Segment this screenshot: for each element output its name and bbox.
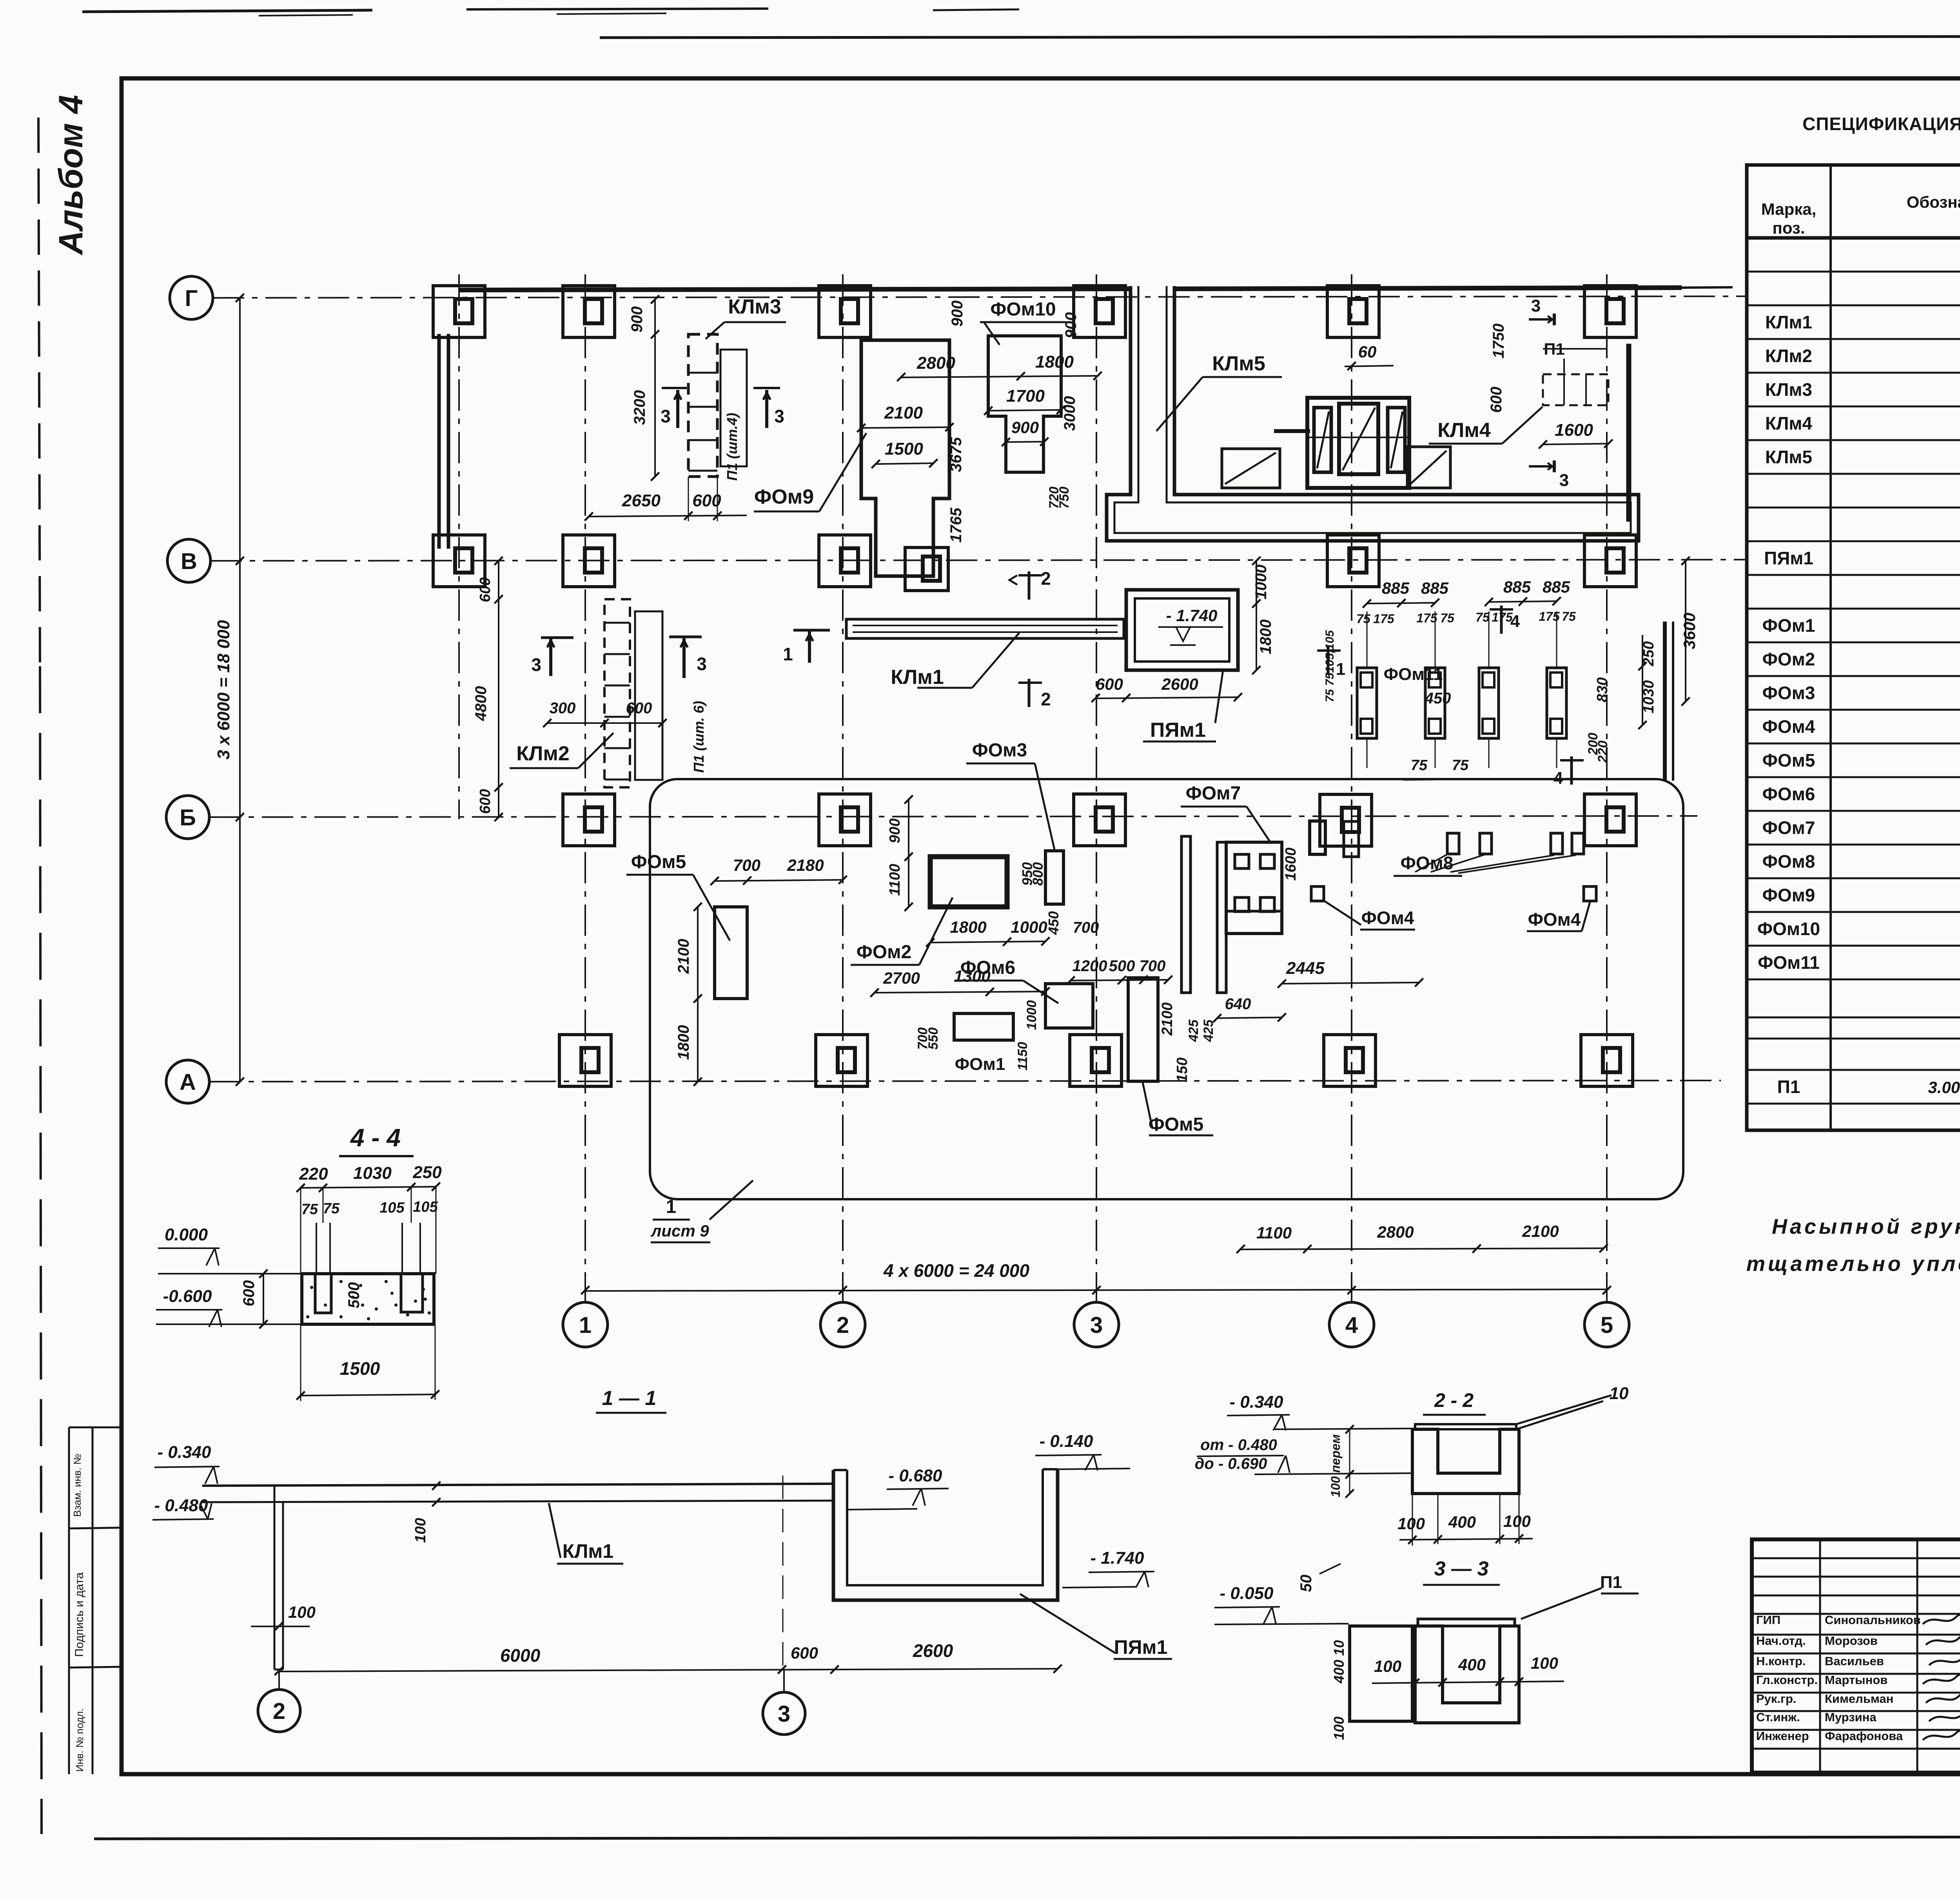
svg-text:75: 75 — [301, 1201, 318, 1218]
svg-text:885: 885 — [1382, 579, 1410, 597]
svg-text:600: 600 — [477, 577, 494, 602]
svg-text:- 0.340: - 0.340 — [158, 1443, 212, 1462]
sheet top torn edge — [82, 10, 372, 12]
svg-text:600: 600 — [791, 1644, 818, 1662]
svg-text:КЛм4: КЛм4 — [1765, 413, 1812, 433]
axis circle А — [166, 1060, 209, 1103]
svg-text:Инв. № подл.: Инв. № подл. — [74, 1708, 85, 1772]
svg-text:1600: 1600 — [1283, 848, 1299, 881]
svg-text:ФОм4: ФОм4 — [1762, 716, 1815, 737]
section 4-4 block — [302, 1274, 434, 1324]
svg-text:1000: 1000 — [1024, 1000, 1039, 1030]
axis circle 4 — [1329, 1302, 1374, 1347]
svg-text:КЛм2: КЛм2 — [1765, 346, 1812, 366]
svg-text:КЛм4: КЛм4 — [1437, 419, 1491, 442]
svg-text:КЛм5: КЛм5 — [1765, 447, 1812, 467]
sheet left edge broken line — [38, 118, 40, 666]
foundation FOm9 — [861, 340, 949, 576]
svg-text:ФОм7: ФОм7 — [1762, 818, 1815, 838]
svg-text:ФОм5: ФОм5 — [1149, 1114, 1204, 1135]
channel KLm2 — [604, 599, 630, 787]
svg-text:425: 425 — [1201, 1019, 1216, 1042]
svg-text:тщательно уплотнить.: тщательно уплотнить. — [1746, 1252, 1960, 1276]
svg-text:ФОм10: ФОм10 — [1757, 919, 1820, 939]
svg-text:2100: 2100 — [884, 403, 923, 422]
svg-text:Мартынов: Мартынов — [1825, 1673, 1887, 1687]
axis column lines — [584, 274, 586, 1302]
svg-text:КЛм2: КЛм2 — [516, 742, 570, 765]
svg-text:1700: 1700 — [1006, 386, 1045, 406]
svg-text:КЛм3: КЛм3 — [1765, 379, 1812, 400]
svg-text:ФОм5: ФОм5 — [1762, 750, 1815, 770]
foundation FOm1 — [954, 1013, 1013, 1040]
svg-text:ФОм10: ФОм10 — [990, 299, 1056, 320]
pit PYam1 — [1126, 590, 1238, 670]
svg-text:ФОм6: ФОм6 — [1762, 784, 1815, 804]
svg-text:1150: 1150 — [1015, 1042, 1030, 1070]
left overall dim line — [239, 298, 241, 1082]
svg-text:175: 175 — [1373, 612, 1395, 626]
svg-text:3200: 3200 — [631, 390, 648, 425]
right wall upper — [1626, 344, 1632, 522]
svg-text:ПЯм1: ПЯм1 — [1150, 719, 1206, 741]
svg-text:75: 75 — [1452, 757, 1469, 774]
svg-text:220: 220 — [299, 1164, 328, 1184]
bottom subdim line — [1241, 1248, 1604, 1249]
foundation FOm5 lower — [1128, 978, 1158, 1081]
svg-text:2: 2 — [273, 1699, 285, 1724]
foundation FOm2 — [930, 857, 1007, 907]
svg-text:105: 105 — [413, 1199, 438, 1215]
svg-text:Кимельман: Кимельман — [1825, 1692, 1893, 1706]
svg-text:885: 885 — [1421, 579, 1449, 597]
section 4-4 concrete dots — [310, 1286, 313, 1289]
svg-text:- 1.740: - 1.740 — [1091, 1548, 1145, 1568]
svg-text:100: 100 — [1331, 1717, 1347, 1740]
axis circle Г — [170, 276, 213, 319]
svg-text:ФОм9: ФОм9 — [754, 486, 814, 508]
machine side right — [1407, 447, 1450, 488]
svg-text:75: 75 — [1475, 610, 1490, 624]
section 1-1 pit — [833, 1469, 1058, 1600]
svg-text:600: 600 — [477, 789, 494, 814]
section 1-1 circle 3 — [763, 1692, 805, 1735]
column squares row А — [559, 1035, 611, 1086]
svg-text:ФОм9: ФОм9 — [1762, 885, 1815, 905]
svg-text:2600: 2600 — [913, 1641, 953, 1661]
svg-text:В: В — [181, 549, 197, 574]
svg-text:1800: 1800 — [1035, 352, 1074, 372]
svg-text:900: 900 — [1062, 312, 1080, 339]
svg-text:Нач.отд.: Нач.отд. — [1756, 1634, 1806, 1648]
section mark 3 left a — [662, 387, 687, 389]
svg-text:2100: 2100 — [675, 939, 692, 974]
svg-text:1800: 1800 — [1257, 620, 1274, 654]
svg-text:ФОм2: ФОм2 — [857, 942, 912, 963]
svg-text:3: 3 — [778, 1701, 790, 1727]
channel KLm3 — [688, 334, 717, 477]
svg-text:Синопальников: Синопальников — [1825, 1613, 1921, 1627]
svg-text:КЛм3: КЛм3 — [728, 295, 781, 318]
svg-text:100: 100 — [1397, 1514, 1425, 1533]
section mark 3 mid a — [541, 636, 573, 639]
svg-text:1000: 1000 — [1011, 918, 1047, 936]
svg-text:ФОм8: ФОм8 — [1762, 851, 1815, 872]
svg-text:2600: 2600 — [1161, 675, 1198, 693]
svg-text:ФОм4: ФОм4 — [1528, 909, 1581, 930]
svg-text:400: 400 — [1448, 1513, 1476, 1531]
svg-text:600: 600 — [1488, 387, 1505, 413]
svg-text:Рук.гр.: Рук.гр. — [1756, 1692, 1797, 1706]
svg-text:1765: 1765 — [947, 508, 965, 543]
right wall lower — [1663, 622, 1667, 781]
axis circle 5 — [1584, 1302, 1629, 1347]
svg-text:3: 3 — [774, 406, 784, 426]
svg-text:1000: 1000 — [1252, 565, 1270, 600]
left strip columns — [68, 1427, 70, 1774]
svg-text:- 0.140: - 0.140 — [1040, 1432, 1094, 1451]
section 2-2 block — [1412, 1429, 1519, 1494]
svg-text:ФОм11: ФОм11 — [1758, 952, 1820, 973]
svg-text:75 75105,105: 75 75105,105 — [1323, 630, 1336, 702]
signatures — [1923, 1614, 1960, 1624]
svg-text:2: 2 — [1041, 689, 1051, 709]
svg-text:1800: 1800 — [950, 918, 986, 936]
svg-text:от - 0.480: от - 0.480 — [1200, 1436, 1277, 1454]
axis circle В — [167, 539, 211, 582]
svg-text:2700: 2700 — [883, 969, 920, 987]
svg-text:1500: 1500 — [340, 1358, 380, 1379]
svg-text:2800: 2800 — [1377, 1223, 1414, 1241]
column square row V extra — [905, 547, 948, 591]
svg-text:ФОм4: ФОм4 — [1361, 908, 1414, 928]
svg-text:640: 640 — [1225, 995, 1251, 1013]
svg-text:1030: 1030 — [353, 1164, 392, 1183]
svg-text:2: 2 — [837, 1312, 849, 1338]
svg-text:КЛм1: КЛм1 — [1765, 312, 1812, 332]
svg-text:3000: 3000 — [1061, 396, 1078, 431]
svg-text:1100: 1100 — [1256, 1224, 1292, 1242]
section 3-3 left block — [1350, 1626, 1412, 1721]
svg-text:- 0.340: - 0.340 — [1230, 1392, 1284, 1412]
svg-text:лист 9: лист 9 — [650, 1222, 709, 1240]
svg-text:1500: 1500 — [885, 439, 923, 459]
svg-text:-0.600: -0.600 — [163, 1287, 212, 1306]
svg-text:Подпись и дата: Подпись и дата — [73, 1572, 86, 1657]
svg-text:П1: П1 — [1777, 1077, 1800, 1097]
svg-text:2180: 2180 — [787, 856, 824, 874]
svg-text:ФОм3: ФОм3 — [972, 740, 1027, 761]
svg-text:3: 3 — [1559, 471, 1569, 490]
axis circle 3 — [1074, 1302, 1119, 1347]
top wall — [459, 289, 1129, 290]
svg-text:60: 60 — [1358, 343, 1377, 361]
svg-text:Фарафонова: Фарафонова — [1825, 1729, 1903, 1743]
machine block — [1307, 398, 1409, 488]
svg-text:А: А — [180, 1070, 196, 1095]
section 3-3 plate — [1418, 1619, 1515, 1626]
svg-text:4 х 6000 = 24 000: 4 х 6000 = 24 000 — [883, 1260, 1030, 1281]
svg-text:2800: 2800 — [916, 353, 955, 373]
svg-text:КЛм1: КЛм1 — [891, 666, 944, 689]
sheet top edge line — [600, 36, 1960, 38]
section mark 4 a — [1490, 608, 1513, 611]
left wall — [437, 334, 441, 549]
foundation FOm4 left — [1311, 886, 1324, 901]
bottom overall dim — [585, 1289, 1607, 1291]
svg-text:400 10: 400 10 — [1331, 1640, 1347, 1684]
spec table grid — [1747, 165, 1960, 1130]
svg-text:1750: 1750 — [1490, 324, 1507, 359]
svg-text:75: 75 — [1411, 757, 1428, 774]
svg-text:1600: 1600 — [1555, 421, 1593, 440]
foundation FOm3 — [1045, 851, 1063, 904]
svg-text:100: 100 — [288, 1603, 316, 1621]
svg-text:700: 700 — [733, 856, 760, 874]
svg-text:4 - 4: 4 - 4 — [350, 1124, 401, 1152]
svg-text:2 - 2: 2 - 2 — [1434, 1389, 1474, 1411]
svg-text:Гл.констр.: Гл.констр. — [1756, 1673, 1818, 1687]
svg-text:2: 2 — [1041, 568, 1051, 589]
svg-text:ФОм7: ФОм7 — [1186, 783, 1241, 804]
svg-text:175: 175 — [1539, 609, 1560, 624]
svg-text:ФОм3: ФОм3 — [1762, 683, 1815, 703]
svg-text:3.006.1 - 2/82 В.1-2: 3.006.1 - 2/82 В.1-2 — [1928, 1078, 1960, 1097]
section mark 1 b — [1317, 649, 1341, 652]
svg-text:700: 700 — [1140, 957, 1166, 975]
title block grid — [1752, 1539, 1960, 1773]
svg-text:ФОм1: ФОм1 — [955, 1055, 1005, 1074]
svg-text:885: 885 — [1543, 578, 1570, 596]
section 1-1 channel — [202, 1484, 833, 1486]
section 1-1 circle 2 — [258, 1690, 300, 1732]
svg-text:1100: 1100 — [887, 864, 903, 896]
svg-text:Взам. инв. №: Взам. инв. № — [71, 1454, 83, 1517]
svg-text:3 — 3: 3 — 3 — [1434, 1557, 1489, 1580]
column squares row Г — [433, 286, 485, 337]
svg-text:1: 1 — [666, 1196, 677, 1217]
svg-text:425: 425 — [1186, 1019, 1201, 1042]
svg-text:3: 3 — [661, 406, 671, 426]
svg-text:ФОм11: ФОм11 — [1384, 665, 1443, 684]
svg-text:100: 100 — [1503, 1512, 1531, 1530]
svg-text:2100: 2100 — [1522, 1222, 1559, 1240]
svg-text:3: 3 — [531, 654, 541, 675]
svg-text:1: 1 — [783, 644, 793, 664]
svg-text:550: 550 — [926, 1028, 941, 1050]
svg-text:П1 (шт. 6): П1 (шт. 6) — [691, 701, 707, 772]
svg-text:3: 3 — [1090, 1312, 1103, 1338]
svg-text:500: 500 — [1109, 957, 1135, 975]
section mark 3 right bot — [1529, 465, 1554, 468]
building footprint rounded — [650, 779, 1683, 1199]
section 2-2 plate — [1415, 1424, 1516, 1429]
column squares row Б — [563, 794, 615, 846]
channel KLm1 — [846, 619, 1124, 638]
svg-text:175: 175 — [1492, 610, 1513, 624]
foundation FOm5 upper — [715, 907, 747, 999]
svg-text:1200: 1200 — [1073, 957, 1107, 975]
svg-text:- 0.050: - 0.050 — [1220, 1584, 1274, 1603]
svg-text:900: 900 — [1011, 418, 1039, 437]
foundation FOm4 right — [1584, 886, 1596, 901]
svg-text:600: 600 — [240, 1280, 258, 1307]
svg-text:6000: 6000 — [500, 1645, 541, 1666]
svg-text:КЛм5: КЛм5 — [1212, 352, 1265, 375]
svg-text:75: 75 — [1562, 609, 1576, 624]
section mark 3 left b — [753, 387, 780, 389]
svg-text:1300: 1300 — [954, 967, 990, 985]
right cluster dimlines — [1685, 561, 1686, 702]
svg-text:ФОм2: ФОм2 — [1762, 649, 1815, 669]
svg-text:75: 75 — [323, 1200, 340, 1217]
column squares row В — [433, 535, 485, 587]
svg-text:3: 3 — [697, 654, 707, 674]
svg-text:720: 720 — [1047, 487, 1062, 509]
svg-text:100: 100 — [412, 1518, 429, 1543]
svg-text:150: 150 — [1174, 1057, 1191, 1082]
svg-text:ПЯм1: ПЯм1 — [1764, 548, 1813, 568]
svg-text:600: 600 — [626, 700, 652, 717]
section mark 2 a — [1018, 574, 1042, 576]
svg-text:3600: 3600 — [1680, 613, 1699, 649]
section mark 1 a — [793, 629, 830, 632]
svg-text:885: 885 — [1503, 578, 1531, 596]
svg-text:900: 900 — [887, 818, 903, 843]
svg-text:Б: Б — [180, 805, 196, 830]
section 4-4 pipes — [316, 1223, 317, 1274]
svg-text:400: 400 — [1458, 1655, 1486, 1674]
svg-text:830: 830 — [1594, 677, 1611, 702]
svg-text:10: 10 — [1610, 1384, 1629, 1403]
svg-text:Ст.инж.: Ст.инж. — [1756, 1710, 1800, 1724]
axis circle 2 — [820, 1302, 865, 1347]
svg-text:105: 105 — [379, 1200, 405, 1216]
svg-text:Инженер: Инженер — [1756, 1729, 1809, 1743]
svg-text:300: 300 — [550, 700, 576, 717]
svg-text:100: 100 — [1374, 1657, 1401, 1675]
section 4-4 slots — [315, 1274, 331, 1313]
svg-text:600: 600 — [1096, 675, 1123, 693]
svg-text:СПЕЦИФИКАЦИЯ ЭЛЕМЕНТОВ К СХЕМЕ: СПЕЦИФИКАЦИЯ ЭЛЕМЕНТОВ К СХЕМЕ РАСПОЛОЖЕ… — [1802, 114, 1960, 134]
section mark 3 right top — [1529, 318, 1554, 321]
svg-text:до - 0.690: до - 0.690 — [1195, 1455, 1267, 1472]
svg-text:КЛм1: КЛм1 — [563, 1540, 613, 1562]
svg-text:Альбом 4: Альбом 4 — [52, 95, 90, 256]
svg-text:50: 50 — [1298, 1575, 1315, 1592]
svg-text:3: 3 — [1531, 296, 1541, 315]
svg-text:450: 450 — [1045, 911, 1062, 935]
svg-text:ПЯм1: ПЯм1 — [1114, 1636, 1168, 1658]
foundations FOm11 — [1357, 668, 1377, 738]
svg-text:Морозов: Морозов — [1825, 1634, 1878, 1648]
svg-text:175: 175 — [1416, 611, 1438, 625]
svg-text:5: 5 — [1601, 1312, 1613, 1338]
svg-text:2445: 2445 — [1286, 959, 1325, 978]
svg-text:ФОм5: ФОм5 — [631, 852, 686, 872]
svg-text:2100: 2100 — [1159, 1002, 1176, 1036]
axis circle 1 — [563, 1302, 608, 1347]
svg-text:- 0.480: - 0.480 — [154, 1496, 209, 1515]
svg-text:ФОм8: ФОм8 — [1401, 853, 1454, 873]
svg-text:250: 250 — [412, 1163, 442, 1182]
svg-text:700: 700 — [1073, 919, 1099, 936]
foundation FOm10 — [988, 336, 1061, 472]
foundations FOm8 — [1447, 833, 1459, 854]
foundation FOm6 — [1045, 984, 1093, 1028]
svg-text:0.000: 0.000 — [165, 1225, 208, 1244]
foundation FOm7 — [1181, 836, 1191, 993]
svg-text:800: 800 — [1030, 862, 1046, 886]
svg-text:4800: 4800 — [472, 686, 490, 721]
svg-text:Н.контр.: Н.контр. — [1756, 1654, 1806, 1668]
svg-text:2650: 2650 — [622, 491, 661, 510]
svg-text:900: 900 — [949, 301, 966, 327]
svg-text:Марка,: Марка, — [1761, 200, 1817, 218]
svg-text:поз.: поз. — [1772, 219, 1805, 237]
axis circle Б — [166, 796, 209, 839]
svg-text:100: 100 — [1531, 1654, 1558, 1672]
channel KLm5 — [1107, 286, 1639, 541]
svg-text:1: 1 — [579, 1312, 592, 1338]
svg-text:ФОм1: ФОм1 — [1762, 615, 1815, 636]
svg-text:4: 4 — [1345, 1312, 1358, 1338]
svg-text:- 0.680: - 0.680 — [889, 1466, 943, 1485]
svg-text:3675: 3675 — [947, 437, 965, 472]
sheet bottom edge line — [94, 1836, 1960, 1839]
svg-text:75: 75 — [1356, 612, 1371, 626]
section mark 4 b — [1560, 759, 1584, 761]
svg-text:П1 (шт.4): П1 (шт.4) — [724, 413, 740, 480]
section 3-3 right block — [1415, 1626, 1519, 1723]
svg-text:1: 1 — [1336, 660, 1345, 679]
dashed slab P1 top right — [1543, 374, 1608, 405]
section mark 2 b — [1018, 682, 1042, 684]
svg-text:75: 75 — [1440, 611, 1455, 625]
svg-text:Г: Г — [185, 286, 198, 311]
svg-text:ГИП: ГИП — [1756, 1613, 1780, 1627]
svg-text:Васильев: Васильев — [1825, 1654, 1884, 1668]
svg-text:Обозначение: Обозначение — [1907, 193, 1960, 211]
svg-text:1 — 1: 1 — 1 — [602, 1387, 657, 1410]
axis row lines — [213, 296, 1748, 298]
svg-text:П1: П1 — [1600, 1573, 1622, 1592]
svg-text:450: 450 — [1425, 690, 1451, 707]
svg-text:- 1.740: - 1.740 — [1166, 606, 1218, 625]
svg-text:500: 500 — [345, 1282, 363, 1309]
svg-text:3 х 6000 = 18 000: 3 х 6000 = 18 000 — [214, 620, 233, 760]
svg-text:Насыпной грунт под каналами: Насыпной грунт под каналами и фундамента… — [1772, 1215, 1960, 1238]
svg-text:220: 220 — [1595, 741, 1610, 763]
svg-text:Мурзина: Мурзина — [1825, 1710, 1877, 1724]
svg-text:1800: 1800 — [675, 1025, 692, 1060]
section mark 3 mid b — [669, 636, 702, 638]
svg-text:100 перем: 100 перем — [1328, 1434, 1343, 1497]
machine side left — [1222, 449, 1280, 488]
column square B4 cluster — [1320, 794, 1372, 846]
svg-text:900: 900 — [628, 306, 646, 333]
